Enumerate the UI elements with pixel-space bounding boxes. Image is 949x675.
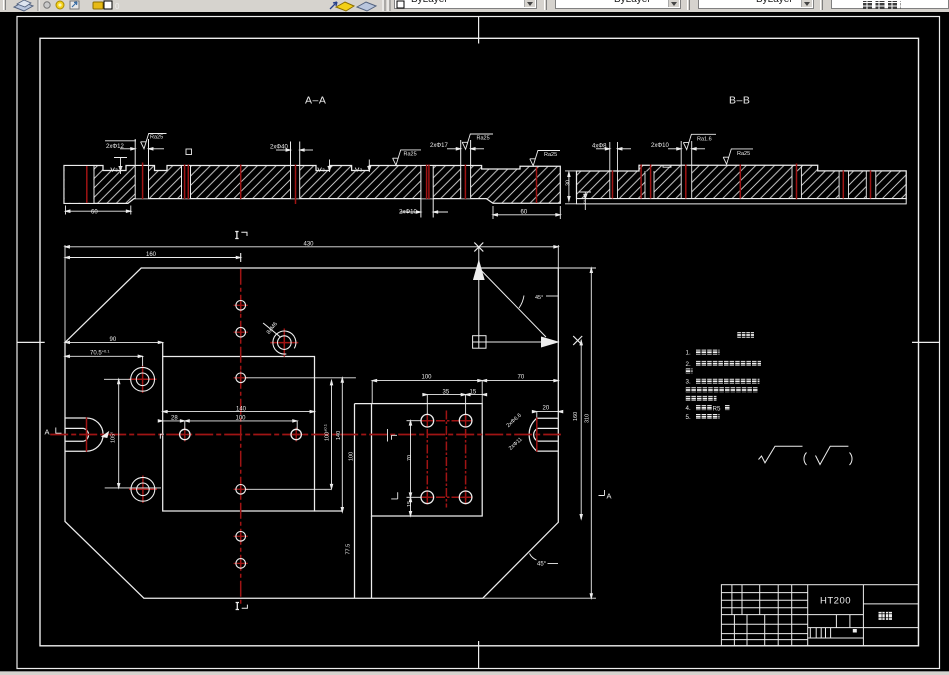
status strip at very bottom xyxy=(0,671,949,675)
svg-text:Ra25: Ra25 xyxy=(404,152,417,158)
svg-text:Ra25: Ra25 xyxy=(477,136,490,142)
B-B callout texts xyxy=(583,137,750,205)
svg-text:A: A xyxy=(45,427,50,436)
red centerlines xyxy=(50,269,561,605)
dim 60 left xyxy=(66,206,131,215)
svg-text:140: 140 xyxy=(236,406,247,412)
A-A hole gap 2xΦ40 xyxy=(291,142,300,199)
notes title xyxy=(737,332,754,338)
main horizontal centerline xyxy=(50,434,561,436)
base plate thickness arrow xyxy=(579,192,591,210)
B-B small top notch xyxy=(663,165,671,167)
small hole crosses red xyxy=(178,298,473,571)
title block main verticals xyxy=(807,585,809,646)
finish flag B-B right xyxy=(723,149,753,164)
dim 430 top xyxy=(65,246,558,248)
left counterbore cross 1 xyxy=(142,366,144,394)
svg-text:45°: 45° xyxy=(535,295,543,301)
svg-text:2xΦ10: 2xΦ10 xyxy=(651,143,669,149)
A mark right elbow xyxy=(599,490,605,496)
notch3 tick xyxy=(328,160,331,173)
svg-text:2xΦ10: 2xΦ10 xyxy=(399,210,417,216)
A-A hole gap 2xΦ12 xyxy=(135,139,148,199)
svg-text:2xΦ17: 2xΦ17 xyxy=(430,143,448,149)
dim 35/15 xyxy=(427,394,482,396)
svg-text:90: 90 xyxy=(110,337,117,343)
tiny v marks xyxy=(111,168,583,204)
svg-text:100±0.1: 100±0.1 xyxy=(322,423,330,441)
notch1 depth arrow xyxy=(114,158,127,175)
dim 20 at right slot xyxy=(537,411,559,413)
right slot vertical centerline xyxy=(536,417,538,452)
linetype combo xyxy=(555,0,681,9)
title block outline xyxy=(721,585,918,646)
HT200 cell bottom xyxy=(808,614,864,616)
A mark left elbow xyxy=(56,428,62,434)
svg-text:HT200: HT200 xyxy=(820,596,851,607)
dim 4xΦ8 xyxy=(596,148,610,150)
note line 5 xyxy=(686,387,758,392)
dimensions (white) xyxy=(56,245,605,598)
note line 8 xyxy=(696,414,720,419)
dim chain right of left rect xyxy=(245,377,356,379)
dim 70/15 left of bolt rect xyxy=(410,421,412,516)
note line 1 xyxy=(696,350,720,355)
small square symbol xyxy=(186,149,192,155)
B-B hole gap right3 xyxy=(866,171,876,198)
right column rows xyxy=(863,603,918,605)
dim 28/100 in left rect xyxy=(163,420,298,422)
plotstyle combo (chinese) xyxy=(831,0,949,9)
plan view plate outline xyxy=(65,268,558,598)
svg-text:15: 15 xyxy=(407,501,413,507)
finish flag mid xyxy=(393,150,421,165)
border centering tick bottom xyxy=(478,641,480,669)
svg-text:100: 100 xyxy=(422,374,433,380)
right boss left edge extended to plate bottom xyxy=(371,516,373,598)
svg-text:1.: 1. xyxy=(686,350,691,357)
left grid rows top half xyxy=(721,592,807,594)
svg-text:105°: 105° xyxy=(111,432,117,443)
svg-text:45°: 45° xyxy=(537,562,547,568)
svg-text:B–B: B–B xyxy=(729,95,750,107)
B-B thin base plate xyxy=(577,199,907,204)
plan left rect left edge extension up xyxy=(162,342,164,356)
threaded hole 8xM6 xyxy=(273,331,296,354)
svg-text:Ra25: Ra25 xyxy=(737,151,750,157)
B-B hole gap 2xΦ10 xyxy=(681,141,692,198)
svg-text:20: 20 xyxy=(543,406,550,412)
note line 6 xyxy=(686,396,717,401)
A-A hole gap 2xΦ17 xyxy=(461,140,471,199)
svg-text:2xΦ40: 2xΦ40 xyxy=(270,145,288,151)
svg-text:A–A: A–A xyxy=(305,95,326,107)
plan left pocket rectangle xyxy=(163,357,315,512)
left slot vertical centerline xyxy=(86,417,88,452)
lineweight combo xyxy=(698,0,814,9)
notch4 tick xyxy=(368,160,371,173)
main vertical centerline xyxy=(240,269,242,605)
B-B hole gap right2 xyxy=(839,171,848,198)
vertical line x=354.5 (77.5 dim chain) xyxy=(354,404,356,599)
svg-text:160: 160 xyxy=(146,252,157,258)
right slot inner xyxy=(534,428,559,441)
svg-text:28: 28 xyxy=(171,416,178,422)
B-B hole gap 4xΦ8 xyxy=(610,142,618,198)
white hole circles xyxy=(131,301,472,569)
surface finish legend bottom right xyxy=(759,446,849,464)
dim 2xΦ17 + flag xyxy=(447,148,461,150)
note line 4 xyxy=(696,379,760,384)
plan right boss rectangle xyxy=(372,404,483,516)
left U-slot inner xyxy=(65,428,89,441)
svg-text:60: 60 xyxy=(91,210,98,216)
svg-text:2xΦ12: 2xΦ12 xyxy=(106,144,124,150)
plan dimension texts xyxy=(45,241,612,567)
middle cells verticals xyxy=(835,615,837,628)
finish flag right xyxy=(530,151,560,166)
A-A callout texts xyxy=(91,135,572,216)
dim 2xΦ10 bottom xyxy=(400,211,448,213)
technical notes block (chinese text as stroke blobs) xyxy=(686,335,761,417)
svg-text:Ra25: Ra25 xyxy=(544,152,557,158)
left grid columns bottom half xyxy=(733,615,735,646)
left counterbore cross 2 xyxy=(142,476,144,504)
dim 2xΦ40 xyxy=(276,149,291,151)
dim 105 vertical chain xyxy=(118,379,120,488)
section cut line I (top & bottom marks) xyxy=(235,232,247,610)
counterbored holes left xyxy=(131,367,155,391)
middle cell rows xyxy=(808,627,864,629)
svg-text:70: 70 xyxy=(518,374,525,380)
A-A hole gap 2xΦ10 xyxy=(421,166,433,218)
border centering tick left xyxy=(17,341,45,343)
dim 60 right xyxy=(493,206,560,219)
svg-text:A: A xyxy=(607,492,612,501)
title block xyxy=(721,585,918,646)
svg-text:160: 160 xyxy=(573,412,579,421)
section elbows near bolt rect xyxy=(388,429,398,442)
dim 30 B-B height xyxy=(565,171,576,204)
svg-text:4xΦ8: 4xΦ8 xyxy=(592,144,607,150)
section A-A hatched bar outline xyxy=(64,166,560,204)
svg-text:100: 100 xyxy=(236,416,247,422)
A-A hole gap small xyxy=(182,166,191,199)
45 deg leader xyxy=(548,563,559,565)
svg-text:Ra25: Ra25 xyxy=(150,135,163,141)
note line 7 xyxy=(696,405,713,410)
svg-text:140: 140 xyxy=(336,431,342,440)
svg-text:310: 310 xyxy=(585,414,591,423)
svg-text:2xΦ6.6: 2xΦ6.6 xyxy=(506,413,523,429)
svg-text:30: 30 xyxy=(566,180,572,186)
B-B hole gap step xyxy=(645,171,654,198)
svg-text:4.: 4. xyxy=(686,405,691,412)
note line 3 xyxy=(686,368,693,373)
svg-text:70: 70 xyxy=(407,455,413,461)
toolbar strip (cut off at top of screenshot) xyxy=(0,0,949,12)
svg-text:Ra1.6: Ra1.6 xyxy=(697,137,712,143)
B-B hole gap right1 xyxy=(792,166,801,198)
dim 160 right xyxy=(580,340,582,519)
left grid rows bottom half xyxy=(721,623,807,625)
color combo xyxy=(394,0,537,9)
A-A red hole centerlines xyxy=(87,163,537,205)
bolt-rect centerlines xyxy=(426,414,428,505)
dim 90 xyxy=(65,341,163,343)
dim 310 right xyxy=(590,268,592,598)
dim 100 / 70 over right boss xyxy=(372,380,558,382)
section cut symbol top-right (arrow, box, diagonal) xyxy=(473,243,583,349)
svg-text:60: 60 xyxy=(521,210,528,216)
section B-B hatched bar outline xyxy=(577,165,907,198)
svg-text:2.: 2. xyxy=(686,361,691,368)
note line 2 xyxy=(696,361,761,366)
border centering tick top xyxy=(478,17,480,44)
layers toolbar icon xyxy=(0,0,949,12)
dim 160 top xyxy=(65,257,241,259)
svg-text:R5: R5 xyxy=(713,405,721,412)
dim 140 in left rect xyxy=(163,411,315,413)
dim 70.5 xyxy=(65,355,143,357)
svg-text:35: 35 xyxy=(443,390,450,396)
note line number prefixes xyxy=(686,350,721,421)
part name blob (chinese) xyxy=(879,612,893,620)
svg-text:15: 15 xyxy=(470,390,477,396)
svg-text:430: 430 xyxy=(304,241,315,247)
border centering tick right xyxy=(912,341,940,343)
dim 2xΦ12 with finish flag xyxy=(120,148,135,150)
8xM6 leader xyxy=(263,323,280,337)
svg-text:2xΦ11: 2xΦ11 xyxy=(508,437,524,452)
svg-text:70.5+0.1: 70.5+0.1 xyxy=(90,349,110,357)
svg-text:3.: 3. xyxy=(686,379,691,386)
left grid columns top half xyxy=(731,585,733,615)
tiny scale mark xyxy=(853,629,857,633)
right slot outer xyxy=(529,418,558,451)
A-A left unhatched end block xyxy=(65,166,94,204)
dim 2xΦ10 + flag xyxy=(668,148,681,150)
svg-text:100: 100 xyxy=(348,452,354,461)
left U-slot outer xyxy=(65,418,103,451)
svg-text:77.5: 77.5 xyxy=(345,544,351,555)
B-B red hole centerlines xyxy=(613,164,871,200)
thread hole cross xyxy=(283,329,285,357)
note glyph texture slits xyxy=(686,334,761,418)
svg-text:5.: 5. xyxy=(686,414,691,421)
right boss top edge extended left xyxy=(355,403,372,405)
